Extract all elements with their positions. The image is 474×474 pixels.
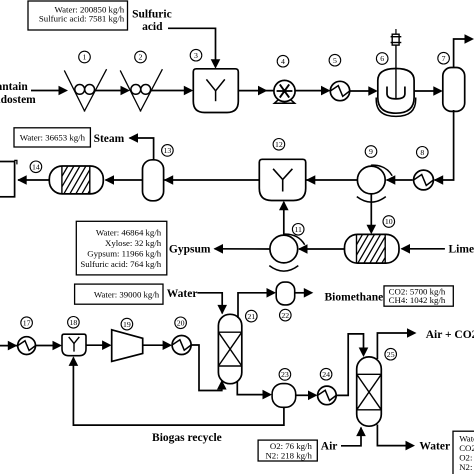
- svg-text:14: 14: [32, 163, 40, 172]
- svg-text:5: 5: [333, 56, 337, 65]
- centrifuge 9: [357, 165, 392, 202]
- stream label 1: [79, 51, 91, 63]
- svg-text:20: 20: [177, 319, 185, 328]
- vessel 23: [272, 384, 296, 408]
- svg-text:9: 9: [369, 147, 373, 156]
- wire column 25 bottoms water out: [377, 425, 415, 451]
- stream label 19: [121, 318, 133, 330]
- wire biogas feed to heat exchanger 17: [0, 341, 18, 351]
- stream label 12: [273, 139, 285, 151]
- label box water wash: [75, 284, 163, 304]
- wire centrifuge 11 to mixer 12: [279, 201, 289, 235]
- svg-text:Steam: Steam: [94, 133, 125, 145]
- centrifuge 11: [269, 234, 304, 271]
- wire heat exchanger 5 to reactor 6: [350, 86, 378, 96]
- stream label Water out: [419, 441, 450, 453]
- shredder 2: [120, 69, 162, 111]
- mixer M-102 (12): [259, 159, 305, 200]
- wire heat exchanger 17 to mixer 18: [36, 341, 63, 351]
- svg-text:Xylose: 32 kg/h: Xylose: 32 kg/h: [105, 238, 162, 248]
- compressor 19: [112, 330, 143, 362]
- stream label 20: [175, 317, 187, 329]
- wire centrifuge 11 gypsum out: [214, 244, 270, 254]
- svg-text:Gypsum: 11966 kg/h: Gypsum: 11966 kg/h: [87, 248, 162, 258]
- wire dryer 14 to boiler: [17, 175, 49, 185]
- reactor R-101 (6) vessel: [376, 69, 416, 117]
- label box biomethane: [384, 286, 453, 306]
- wire column 7 bottoms to heat exchanger 8: [434, 110, 454, 185]
- stream label 9: [365, 146, 377, 158]
- reactor 6 impeller: [387, 87, 405, 99]
- wire vessel 22 biomethane out: [295, 288, 314, 298]
- stream label Water wash: [167, 288, 198, 300]
- svg-text:acid: acid: [142, 21, 163, 33]
- svg-text:Air: Air: [321, 441, 338, 453]
- mixer M-101 (3): [193, 69, 238, 113]
- heat exchanger E-101 (5): [330, 81, 349, 100]
- label box gypsum stream: [76, 221, 167, 275]
- svg-text:pseudostem: pseudostem: [0, 94, 36, 106]
- wire mixer 18 to compressor 19: [86, 340, 112, 350]
- stream label 17: [21, 317, 33, 329]
- svg-text:Sulfuric acid: 7581 kg/h: Sulfuric acid: 7581 kg/h: [39, 14, 125, 24]
- stream label 21: [246, 310, 258, 322]
- svg-text:21: 21: [247, 312, 255, 321]
- stream label 6: [376, 53, 388, 65]
- wire column 21 bottoms to vessel 23: [237, 382, 272, 399]
- wire compressor 19 to heat exchanger 20: [143, 340, 172, 350]
- evaporator vessel 13: [143, 160, 164, 201]
- heat exchanger 17: [18, 337, 36, 355]
- svg-text:3: 3: [194, 51, 198, 60]
- stream label Sulfuric acid: [132, 8, 172, 33]
- wire reactor 6 to column 7: [414, 86, 443, 96]
- svg-text:Water: 39000 kg/h: Water: 39000 kg/h: [94, 289, 160, 299]
- stream label 8: [417, 147, 429, 159]
- svg-text:Water: Water: [419, 441, 450, 453]
- stream label 22: [280, 309, 292, 321]
- svg-text:7: 7: [442, 54, 446, 63]
- svg-text:Lime: Lime: [449, 244, 474, 256]
- svg-text:1: 1: [83, 53, 87, 62]
- wire shredder 2 to mixer 3: [151, 86, 193, 96]
- shredder 1: [64, 69, 106, 111]
- wire column 21 top to vessel 22: [238, 288, 276, 318]
- wire column 7 vapour out: [454, 34, 474, 68]
- flash column 7: [443, 68, 465, 112]
- heat exchanger 20: [172, 336, 191, 355]
- stream label Biomethane: [325, 292, 384, 304]
- stream label 4: [277, 55, 289, 67]
- svg-text:8: 8: [420, 148, 424, 157]
- svg-text:6: 6: [380, 54, 384, 63]
- stream label 5: [329, 54, 341, 66]
- stream label 13: [162, 145, 174, 157]
- wire water to column 21 top: [198, 293, 228, 315]
- svg-text:12: 12: [275, 140, 283, 149]
- stream label Steam: [94, 133, 125, 145]
- wire biogas recycle: [69, 356, 284, 425]
- svg-text:19: 19: [123, 320, 131, 329]
- svg-text:N2: 218 kg/h: N2: 218 kg/h: [265, 450, 312, 460]
- svg-text:13: 13: [164, 146, 172, 155]
- svg-text:10: 10: [385, 217, 393, 226]
- wire centrifuge 9 to filter 10: [367, 194, 377, 234]
- wire mixer 3 to pump 4: [238, 86, 273, 96]
- filter 10: [340, 234, 399, 263]
- stream label 2: [135, 51, 147, 63]
- wire feed to shredder 1: [31, 86, 68, 96]
- heat exchanger 24: [318, 386, 337, 405]
- stream label Lime: [449, 244, 474, 256]
- stream label 11: [292, 224, 304, 236]
- wire air to column 25 bottom: [341, 427, 366, 446]
- wire heat exchanger 24 to column 25 top: [336, 334, 368, 396]
- stream label 18: [68, 317, 80, 329]
- wire lime to filter 10: [401, 244, 445, 254]
- label box water out (cropped): [453, 431, 474, 474]
- svg-text:25: 25: [387, 350, 395, 359]
- svg-text:24: 24: [322, 370, 330, 379]
- svg-text:CH4: 1042 kg/h: CH4: 1042 kg/h: [389, 295, 446, 305]
- stream label 23: [279, 369, 291, 381]
- wire shredder 1 to shredder 2: [95, 86, 130, 96]
- svg-text:22: 22: [281, 311, 289, 320]
- stream label Air + CO2: [426, 329, 474, 341]
- heat exchanger E-102 (8): [414, 170, 434, 190]
- svg-text:17: 17: [23, 318, 31, 327]
- dryer 14: [46, 166, 104, 194]
- svg-text:Biogas recycle: Biogas recycle: [152, 432, 222, 444]
- svg-text:Water: 46864 kg/h: Water: 46864 kg/h: [96, 228, 162, 238]
- stream label 10: [383, 216, 395, 228]
- svg-text:Gypsum: Gypsum: [169, 243, 211, 255]
- wire vessel 23 to heat exchanger 24: [296, 391, 318, 401]
- svg-text:11: 11: [294, 225, 302, 234]
- stream label 14: [30, 161, 42, 173]
- svg-text:2: 2: [139, 53, 143, 62]
- absorption column 21: [218, 314, 241, 383]
- label box air feed: [258, 440, 317, 461]
- stream label Gypsum: [169, 243, 211, 255]
- wire mixer 12 to evaporator 13: [164, 175, 260, 185]
- wire centrifuge 9 to mixer 12: [306, 175, 358, 185]
- svg-text:Biomethane: Biomethane: [325, 292, 384, 304]
- feed label Plantain pseudostem: [0, 81, 36, 106]
- wire filter 10 to centrifuge 11: [298, 244, 345, 254]
- svg-text:23: 23: [281, 370, 289, 379]
- wire column 25 vent air+co2: [377, 328, 416, 359]
- wire heat exchanger 8 to centrifuge 9: [386, 175, 413, 185]
- wire sulfuric acid to mixer 3: [168, 28, 220, 69]
- pump P-101 (4): [274, 80, 295, 103]
- stream label 7: [438, 52, 450, 64]
- stream label Air: [321, 441, 338, 453]
- wire evaporator 13 to dryer 14: [105, 175, 143, 185]
- svg-text:Sulfuric acid: 764 kg/h: Sulfuric acid: 764 kg/h: [80, 259, 161, 269]
- svg-text:Water: 36653 kg/h: Water: 36653 kg/h: [20, 133, 86, 143]
- svg-text:N2: 8 kg/h: N2: 8 kg/h: [459, 462, 474, 472]
- label box steam: [14, 128, 90, 147]
- mixer 18: [62, 334, 86, 356]
- svg-text:Air + CO2: Air + CO2: [426, 329, 474, 341]
- vessel 22: [276, 282, 295, 305]
- stripping column 25: [357, 357, 382, 426]
- stream label Biogas recycle: [152, 432, 222, 444]
- stream label 24: [320, 368, 332, 380]
- svg-text:18: 18: [70, 318, 78, 327]
- wire heat exchanger 20 to column 21 bottom: [191, 345, 227, 391]
- svg-text:Water: Water: [167, 288, 198, 300]
- stream label 3: [190, 49, 202, 61]
- wire evaporator 13 steam out: [129, 133, 154, 160]
- svg-text:Plantain: Plantain: [0, 81, 28, 93]
- reactor 6 agitator shaft: [395, 45, 397, 98]
- wire pump 4 to heat exchanger 5: [294, 86, 330, 96]
- label box water/sulfuric acid feed: [28, 1, 128, 30]
- svg-text:Sulfuric: Sulfuric: [132, 8, 172, 20]
- svg-text:4: 4: [281, 57, 285, 66]
- boiler unit (cropped left): [0, 160, 17, 196]
- reactor 6 agitator motor: [391, 29, 402, 45]
- stream label 25: [385, 348, 397, 360]
